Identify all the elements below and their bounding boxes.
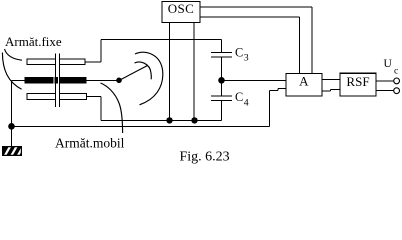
svg-text:U: U — [384, 58, 393, 70]
svg-text:4: 4 — [244, 97, 249, 108]
svg-text:C: C — [235, 46, 243, 60]
svg-text:RSF: RSF — [346, 74, 369, 89]
svg-text:Armăt.mobil: Armăt.mobil — [55, 135, 125, 150]
svg-text:Fig. 6.23: Fig. 6.23 — [180, 150, 230, 165]
svg-text:OSC: OSC — [168, 1, 195, 16]
svg-text:A: A — [299, 74, 309, 89]
svg-text:c: c — [394, 66, 398, 76]
svg-text:Armăt.fixe: Armăt.fixe — [5, 34, 62, 49]
svg-text:C: C — [235, 90, 243, 104]
svg-text:3: 3 — [244, 53, 249, 64]
